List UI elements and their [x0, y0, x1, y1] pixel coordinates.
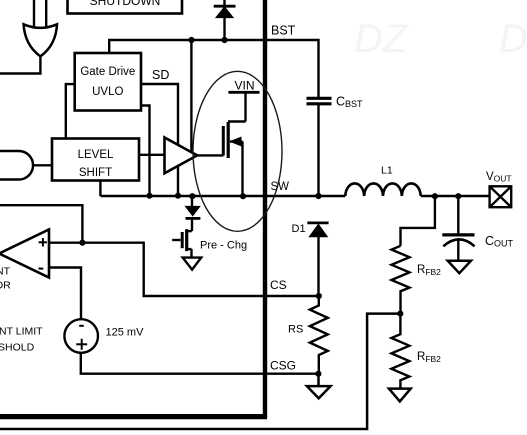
- svg-text:RFB2: RFB2: [417, 264, 441, 277]
- svg-text:D: D: [499, 17, 527, 61]
- svg-text:NT: NT: [0, 266, 11, 278]
- comparator U5: [0, 230, 49, 278]
- svg-text:CBST: CBST: [336, 95, 363, 110]
- wire RFB2a branch: [401, 196, 435, 246]
- ground prechg: [183, 258, 202, 270]
- wire UVLO left to level shift: [66, 84, 75, 138]
- diode D3 prechg: [186, 196, 201, 231]
- inductor L1: [345, 183, 420, 196]
- wire SW main line: [100, 195, 345, 197]
- svg-text:VOUT: VOUT: [486, 171, 512, 184]
- wire UVLO out: [140, 106, 150, 196]
- svg-text:VIN: VIN: [234, 79, 254, 93]
- IC boundary thick vertical: [263, 0, 267, 418]
- mosfet Q1: [223, 92, 259, 196]
- svg-text:125 mV: 125 mV: [106, 327, 145, 339]
- gate drive UVLO box U2: [75, 53, 141, 111]
- wire rail to buffer: [190, 40, 192, 151]
- node dots on SW line: [146, 193, 152, 199]
- resistor RS: [310, 296, 328, 374]
- wire buffer out / gate: [195, 154, 224, 156]
- shutdown box: [68, 0, 183, 14]
- node dot rail-diode: [221, 37, 227, 43]
- svg-text:NT LIMIT: NT LIMIT: [0, 326, 43, 338]
- wire comp plus node top: [0, 205, 82, 243]
- node dot CSG-RS: [315, 371, 321, 377]
- svg-text:L1: L1: [381, 165, 393, 177]
- resistor RFB2 lower: [391, 314, 409, 389]
- svg-text:RS: RS: [288, 324, 303, 336]
- and-gate partial: [0, 151, 33, 180]
- node dot CS-RS: [316, 293, 322, 299]
- svg-text:LEVEL: LEVEL: [78, 149, 114, 161]
- wire comp plus to CS: [49, 243, 319, 296]
- wire feedback to bottom: [0, 314, 400, 429]
- svg-text:SW: SW: [271, 181, 290, 193]
- svg-text:UVLO: UVLO: [92, 86, 123, 98]
- wire CSG: [81, 352, 319, 373]
- wire level shift bottom: [99, 181, 101, 197]
- resistor RFB2 upper: [392, 246, 410, 314]
- level shift box U3: [52, 139, 139, 181]
- svg-text:SHUTDOWN: SHUTDOWN: [90, 0, 161, 8]
- wire and-gate output: [33, 164, 52, 166]
- node dot rail-buffer: [188, 37, 194, 43]
- terminal VOUT: [490, 186, 512, 207]
- diode D1: [307, 223, 328, 296]
- buffer U4: [165, 138, 198, 174]
- node dot plus input: [79, 240, 85, 246]
- svg-text:SHOLD: SHOLD: [0, 342, 35, 354]
- source V1 125mV: [64, 319, 98, 353]
- wire SD: [140, 84, 178, 196]
- diode D2 top: [214, 0, 236, 40]
- node dot SW-RFB: [432, 193, 438, 199]
- svg-text:BST: BST: [271, 24, 296, 38]
- node dot RFB junction: [397, 311, 403, 317]
- svg-text:OR: OR: [0, 280, 11, 292]
- capacitor CBST: [307, 98, 332, 196]
- svg-text:Pre - Chg: Pre - Chg: [200, 240, 247, 252]
- capacitor COUT: [442, 196, 474, 261]
- wire BST rail: [108, 40, 319, 98]
- svg-text:Gate Drive: Gate Drive: [80, 66, 135, 78]
- IC boundary thick bottom: [0, 414, 267, 419]
- svg-text:DZ: DZ: [354, 17, 409, 61]
- ground RFB2: [389, 389, 411, 402]
- node dot SW-D1: [315, 193, 321, 199]
- transistor Q2 prechg: [172, 229, 192, 257]
- svg-text:D1: D1: [292, 223, 306, 235]
- or-gate U1 input wires: [34, 0, 46, 27]
- watermark: [354, 17, 527, 61]
- node dot SW-COUT: [455, 193, 461, 199]
- svg-text:COUT: COUT: [485, 234, 514, 249]
- ground RS: [307, 374, 331, 399]
- svg-text:CSG: CSG: [270, 359, 296, 373]
- svg-text:CS: CS: [270, 278, 287, 292]
- svg-text:SHIFT: SHIFT: [79, 167, 112, 179]
- wire level shift out: [139, 154, 164, 156]
- svg-text:SD: SD: [152, 68, 169, 82]
- wire or-gate output: [0, 55, 40, 74]
- ellipse highlight: [193, 71, 282, 231]
- ground COUT: [448, 261, 471, 274]
- or-gate U1: [24, 24, 57, 56]
- wire comp minus: [49, 268, 81, 320]
- svg-text:RFB2: RFB2: [417, 351, 441, 364]
